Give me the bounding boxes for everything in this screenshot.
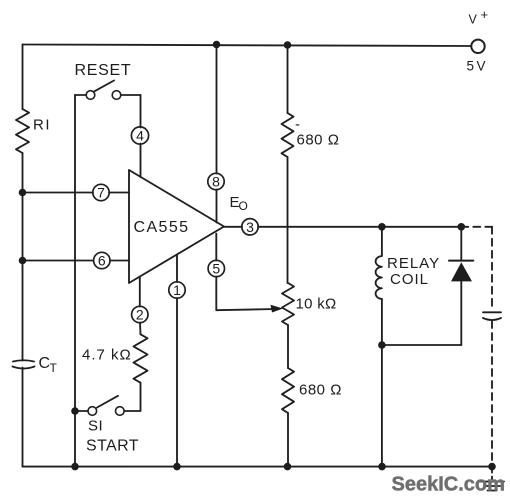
- svg-text:C: C: [39, 355, 51, 372]
- svg-text:RI: RI: [33, 117, 51, 134]
- svg-text:1: 1: [173, 282, 181, 298]
- svg-text:SI: SI: [88, 418, 103, 435]
- svg-text:4.7 kΩ: 4.7 kΩ: [82, 347, 132, 364]
- svg-text:V: V: [469, 13, 478, 27]
- svg-text:T: T: [50, 361, 58, 375]
- svg-text:680 Ω: 680 Ω: [297, 132, 340, 149]
- svg-text:RELAY: RELAY: [387, 255, 440, 272]
- svg-text:7: 7: [97, 185, 105, 201]
- svg-text:+: +: [481, 7, 489, 22]
- svg-text:4: 4: [136, 128, 144, 144]
- svg-text:680 Ω: 680 Ω: [299, 382, 342, 399]
- svg-text:-: -: [295, 116, 300, 133]
- svg-text:RESET: RESET: [75, 62, 132, 79]
- svg-text:2: 2: [136, 307, 144, 323]
- svg-text:5V: 5V: [467, 58, 489, 73]
- svg-text:6: 6: [98, 253, 106, 269]
- svg-text:5: 5: [212, 261, 220, 277]
- svg-text:O: O: [239, 199, 248, 213]
- svg-text:COIL: COIL: [390, 271, 429, 288]
- svg-text:8: 8: [212, 174, 220, 190]
- svg-text:3: 3: [246, 219, 254, 235]
- svg-text:CA555: CA555: [134, 219, 190, 236]
- svg-text:10 kΩ: 10 kΩ: [296, 296, 337, 313]
- svg-text:START: START: [86, 438, 139, 455]
- svg-text:SeekIC.com: SeekIC.com: [392, 474, 505, 496]
